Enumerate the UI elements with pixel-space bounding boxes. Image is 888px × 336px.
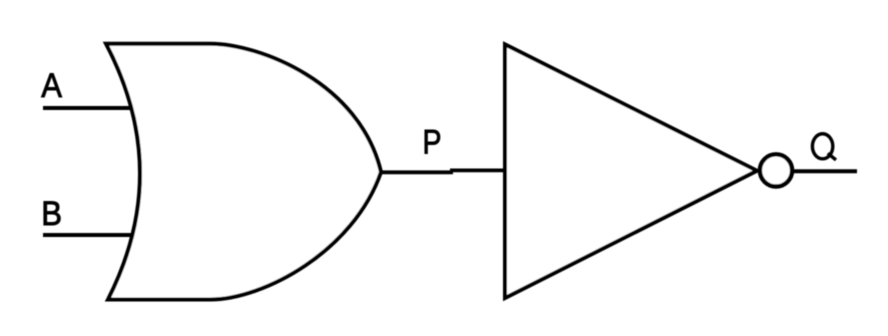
svg-text:P: P [423,122,442,161]
svg-text:A: A [41,66,62,105]
svg-text:B: B [41,193,62,232]
